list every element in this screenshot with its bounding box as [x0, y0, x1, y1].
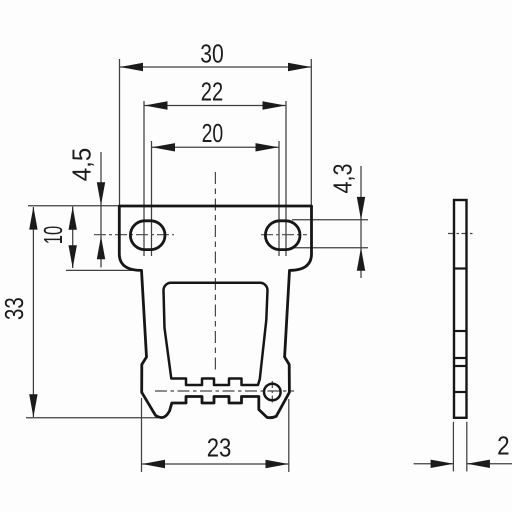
svg-text:4,5: 4,5: [67, 148, 97, 182]
dim line 22: [145, 105, 286, 107]
wire: [26, 59, 512, 472]
svg-text:2: 2: [497, 431, 510, 461]
svg-text:4,3: 4,3: [328, 164, 358, 194]
svg-text:22: 22: [201, 76, 223, 106]
arrow 22 left: [145, 101, 168, 109]
side view body: [454, 200, 467, 418]
node center line vertical: [214, 172, 216, 374]
dim line 10: [72, 207, 74, 269]
node side view center tick: [448, 233, 474, 235]
ext line 22 left: [143, 101, 145, 256]
arrow 4,5 up: [97, 236, 105, 259]
arrow 20 left: [152, 143, 175, 151]
ext line 2 left: [452, 422, 454, 472]
svg-text:10: 10: [38, 226, 68, 244]
dim line 2 right part: [467, 463, 512, 465]
arrow 30 left: [120, 63, 143, 71]
arrow 33 up: [29, 207, 37, 230]
ext line hole top tangent right: [292, 219, 368, 221]
arrow 20 right: [256, 143, 279, 151]
svg-text:30: 30: [200, 39, 224, 69]
side view bend line 5: [454, 391, 467, 393]
arrow 22 right: [263, 101, 286, 109]
arrow 2 left: [431, 460, 454, 468]
arrow 4,5 down: [97, 182, 105, 205]
arrow 30 right: [288, 63, 311, 71]
svg-text:33: 33: [0, 297, 29, 320]
ext line top edge left: [28, 205, 119, 207]
slot hole right: [265, 221, 300, 250]
ext line 2 right: [466, 422, 468, 472]
ext line 23 right: [288, 399, 290, 472]
dim line 4,5: [100, 152, 102, 268]
ext line 30 right: [310, 59, 312, 205]
node strip center line: [155, 390, 294, 392]
ext line 23 left: [141, 398, 143, 472]
ext line 30 left: [119, 59, 121, 205]
dim line 23: [142, 463, 289, 465]
arrows: [29, 63, 490, 468]
center lines: [94, 172, 474, 404]
dim line 30: [120, 66, 311, 68]
ext line 22 right: [285, 101, 287, 256]
arrow 23 right: [266, 460, 289, 468]
side view bend line 3: [454, 357, 467, 359]
arrow 33 down: [29, 394, 37, 417]
ext line 33 bottom: [26, 417, 158, 419]
arrow 4,3 down: [357, 197, 365, 220]
window cutout with toothed strip top: [164, 283, 268, 385]
dim line 4,3: [360, 166, 362, 278]
circle hole: [264, 384, 281, 401]
node right hole horizontal center line: [261, 234, 307, 236]
node left hole horizontal center line: [94, 234, 174, 236]
ext line plate bottom left: [66, 269, 141, 271]
node circle vertical center line: [271, 381, 273, 404]
dim line 33: [32, 207, 34, 417]
svg-text:23: 23: [207, 433, 232, 463]
dim line 2 left part: [414, 463, 454, 465]
svg-text:20: 20: [202, 118, 224, 148]
arrow 23 left: [142, 460, 165, 468]
side view bend line 4: [454, 365, 467, 367]
slot hole left: [130, 221, 165, 250]
ext line hole bottom tangent right: [292, 247, 368, 249]
side view bend line 1: [454, 267, 467, 269]
ext line 20 right: [278, 141, 280, 256]
part outline front view: [119, 206, 311, 418]
side view bend line 2: [454, 330, 467, 332]
arrow 10 down: [69, 245, 77, 268]
ext line 20 left: [151, 141, 153, 256]
dim line 20: [152, 146, 279, 148]
arrow 4,3 up: [357, 248, 365, 271]
arrow 10 up: [69, 207, 77, 230]
arrow 2 right: [467, 460, 490, 468]
